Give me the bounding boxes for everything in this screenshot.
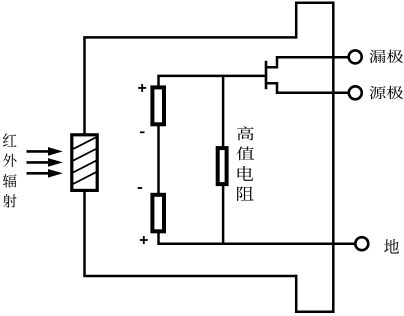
terminal pin: ground [355,237,368,250]
wire: case right side [332,2,335,313]
label 高值电阻 (high-value resistor) [237,126,255,201]
wire: FET source branch [266,83,349,93]
wire: resistor bottom connection [222,185,225,244]
terminal pin: source [349,86,362,99]
label 地 (ground) [384,239,399,254]
infrared radiation arrow 2 [27,158,63,167]
polarity label - (E2 top) [138,187,143,189]
wire: resistor top connection [222,76,225,147]
transistor: FET gate bar [265,61,268,89]
infrared radiation arrow 3 [27,169,63,178]
resistor: high-value resistor [218,148,227,184]
wire: element E1 top to FET gate (node G) [159,76,265,87]
label 源极 (source) [369,86,403,99]
wire: E2 bottom to ground rail [159,233,355,244]
wire: FET drain branch [266,57,349,67]
wire: case top side [83,36,296,39]
wire: E1 bottom to E2 top [157,126,160,195]
wire: case bottom-right notch [296,275,333,312]
polarity label + (E1 top) [138,84,146,92]
infrared radiation arrow 1 [27,147,63,156]
terminal pin: drain [349,50,362,63]
pyroelectric sensing element E2 [152,195,164,232]
wire: case top-right notch [296,3,333,39]
wire: case bottom side [83,275,296,278]
wire: case left side [83,37,86,276]
label 漏极 (drain) [369,50,403,63]
polarity label - (E1 bottom) [140,131,145,133]
pyroelectric detector element (hatched) [72,135,97,191]
polarity label + (E2 bottom) [140,236,148,244]
label 红外辐射 (infrared radiation) [3,133,17,207]
pyroelectric sensing element E1 [152,87,164,124]
